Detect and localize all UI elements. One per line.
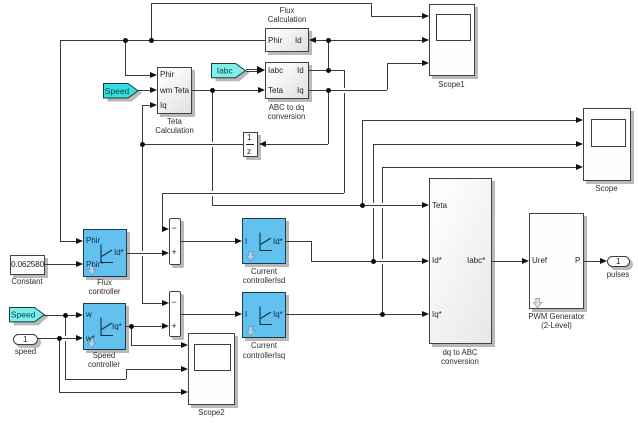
arrowhead into PWM Uref: [522, 258, 529, 264]
block Flux Calculation: [265, 28, 309, 52]
wire speed ref drop: [59, 338, 60, 392]
wire Phir drop to Scope1: [371, 3, 372, 16]
wire Id measured long drop: [344, 70, 345, 193]
junction Speed branch to Scope2: [63, 313, 68, 318]
wire Iabc double-line connector: [246, 69, 259, 70]
wire Phir into Flux controller: [60, 241, 77, 242]
wire Iq delayed into Teta Calc Iq: [142, 105, 151, 106]
block Scope2: [188, 333, 235, 406]
sum block Sum1: [169, 218, 181, 265]
arrowhead into Scope1 port2: [422, 37, 429, 43]
wire Idcmd jog down: [311, 241, 312, 261]
arrowhead into dq2ABC Iq*: [422, 311, 429, 317]
arrowhead into Teta Calculation Phir: [150, 72, 157, 78]
block Flux controller: [83, 229, 127, 277]
label Constant: [0, 277, 57, 286]
wire Iq delayed rise to Teta Calc: [142, 105, 143, 144]
label dq to ABC conversion: [420, 348, 500, 366]
label pulses: [593, 270, 638, 279]
wire speed ref to w*: [38, 338, 77, 339]
label Current controllerIsq: [224, 341, 304, 359]
tag From Speed (upper): [103, 83, 142, 103]
wire Iabc* to PWM: [492, 261, 522, 262]
arrowhead into Scope2 port3: [181, 389, 188, 395]
label Flux controller: [70, 278, 140, 296]
junction Phir branch to Scope1: [149, 38, 154, 43]
block Scope1: [429, 4, 475, 77]
wire Phir left drop: [60, 40, 61, 241]
block Teta Calculation: [157, 67, 192, 114]
svg-text:Iabc: Iabc: [217, 66, 234, 76]
junction Id measured branch up: [326, 68, 331, 73]
arrowhead into Sum1 plus: [162, 250, 169, 256]
wire Iq measured drop to delay: [328, 90, 329, 144]
wire Teta from Teta Calc: [192, 90, 259, 91]
outport pulses oval: [607, 256, 630, 267]
block Speed controller: [83, 303, 126, 350]
label Teta Calculation: [135, 117, 215, 135]
arrowhead into Scope port3: [576, 164, 583, 170]
wire Phir into Scope1: [371, 16, 423, 17]
junction Phir branch to Teta Calculation: [123, 38, 128, 43]
wire Iq measured into Scope1: [387, 63, 423, 64]
wire Constant to Flux controller: [45, 264, 77, 265]
wire Phir to Teta Calculation: [125, 75, 151, 76]
block Current controllerIsq: [242, 292, 286, 339]
svg-text:Speed: Speed: [104, 85, 129, 95]
inport speed oval: [13, 334, 38, 345]
wire Iq measured into Unit Delay: [266, 144, 329, 145]
wire Phir branch drop: [125, 40, 126, 75]
wire Id measured from ABC2dq: [309, 70, 344, 71]
wire Teta into Scope: [362, 120, 577, 121]
wire Idcmd out of Isd: [286, 241, 311, 242]
wire Speed tag to wm: [137, 90, 151, 91]
block dq to ABC conversion: [429, 178, 493, 345]
wire hop gap at 64.7,338: [65, 336, 66, 341]
wire Speed tag to w: [44, 315, 76, 316]
wire Id measured to FluxCalc and Scope1: [316, 40, 423, 41]
label Flux Calculation: [247, 6, 327, 24]
arrowhead into Sum2 minus: [162, 300, 169, 306]
wire Speed into Scope2 mid: [126, 369, 182, 370]
arrowhead into Speed controller w: [76, 312, 83, 318]
wire hop gap at 212,144: [212, 142, 213, 147]
arrowhead into Current controllerIsd: [235, 238, 242, 244]
label Scope2: [182, 408, 242, 417]
label speed: [1, 347, 51, 356]
arrowhead into Unit Delay: [259, 141, 266, 147]
wire hop gap at 381.8,205.4: [382, 203, 383, 208]
wire Speed drop: [65, 315, 66, 379]
junction speed ref branch: [57, 336, 62, 341]
arrowhead into pulses port: [600, 258, 607, 264]
block Current controllerIsd: [242, 218, 286, 264]
wire Sum1 out to CurrentIsd: [181, 241, 236, 242]
arrowhead into Teta Calculation wm: [150, 87, 157, 93]
junction Idcmd branch to Scope: [371, 259, 376, 264]
wire Teta long drop: [212, 90, 213, 205]
label ABC to dq conversion: [247, 103, 327, 121]
arrowhead into Scope1 port3: [422, 60, 429, 66]
wire Id measured into Sum1 minus: [162, 229, 164, 230]
wire Id measured rise: [328, 40, 329, 70]
wire Teta rise to Scope: [362, 120, 363, 205]
wire Sum2 out to CurrentIsq: [181, 314, 236, 315]
wire Idref to Sum1 plus: [127, 253, 163, 254]
block Constant 0.062580: [10, 255, 45, 275]
arrowhead into dq2ABC Id*: [422, 258, 429, 264]
arrowhead into Scope2 port2: [181, 366, 188, 372]
junction Iq measured branch down: [326, 88, 331, 93]
wire Id measured leftward run: [162, 193, 345, 194]
wire Speed rise to Scope2: [126, 369, 127, 379]
arrowhead into Speed controller w*: [76, 335, 83, 341]
label Speed controller: [69, 351, 139, 369]
wire Iq measured from ABC2dq: [309, 90, 387, 91]
arrowhead into Scope2 port1: [181, 342, 188, 348]
arrowhead into Current controllerIsq: [235, 311, 242, 317]
arrowhead into Flux Calculation Id: [309, 37, 316, 43]
wire Iqref into Scope2 top: [131, 345, 182, 346]
sum block Sum2: [169, 291, 181, 337]
arrowhead into dq2ABC Teta: [422, 202, 429, 208]
wire Iq measured rise to Scope1: [387, 63, 388, 90]
wire Iqcmd into Scope: [382, 167, 577, 168]
svg-text:Speed: Speed: [11, 310, 36, 320]
wire speed ref into Scope2 bottom: [59, 392, 182, 393]
label Scope1: [422, 80, 482, 89]
wire Iq delayed into Sum2 minus: [142, 303, 163, 304]
wire Id measured drop to Sum1: [162, 193, 163, 229]
wire Idcmd into Scope: [373, 144, 577, 145]
tag From Iabc: [211, 63, 250, 82]
label PWM Generator (2-Level): [512, 312, 602, 330]
arrowhead into Scope port2: [576, 141, 583, 147]
arrowhead into Scope1 port1: [422, 13, 429, 19]
wire Idcmd rise to Scope: [373, 144, 374, 261]
arrowhead into Sum2 plus: [162, 323, 169, 329]
block PWM Generator (2-Level): [529, 213, 585, 310]
arrowhead into ABC2dq Teta: [258, 87, 265, 93]
junction Id measured junction at y40: [326, 38, 331, 43]
block ABC to dq conversion: [265, 62, 309, 99]
wire Iqref drop: [131, 326, 132, 345]
wire hop gap at 142,252.8: [142, 251, 143, 256]
block Unit Delay 1/z: [243, 132, 259, 158]
junction Iq delayed junction: [140, 142, 145, 147]
junction Teta branch down: [210, 88, 215, 93]
wire Phir main horizontal: [60, 40, 266, 41]
wire Teta into dq2ABC: [212, 205, 422, 206]
junction Teta branch to Scope: [360, 203, 365, 208]
block Scope: [583, 108, 631, 181]
arrowhead into Flux controller Phir: [76, 238, 83, 244]
wire P to pulses: [584, 261, 601, 262]
wire hop gap at 372.5,205.4: [373, 203, 374, 208]
wire hop gap at 381.8,260.6: [382, 259, 383, 264]
wire Idcmd into dq2ABC: [311, 261, 422, 262]
label Scope: [577, 184, 637, 193]
wire Iq delayed drop to Sum2: [142, 144, 143, 303]
arrowhead into ABC2dq Iabc: [257, 66, 265, 74]
label Current controllerIsd: [224, 267, 304, 285]
wire Phir top run: [151, 3, 371, 4]
tag From Speed (lower): [9, 307, 48, 326]
wire Speed bottom run: [65, 379, 126, 380]
wire Iqcmd into dq2ABC: [286, 314, 422, 315]
junction Iqref branch to Scope2: [129, 324, 134, 329]
wire hop gap at 212,193: [212, 191, 213, 196]
wire Iqref to Sum2 plus: [126, 326, 163, 327]
junction Iqcmd branch to Scope: [380, 312, 385, 317]
wire Iq delayed out: [142, 144, 243, 145]
arrowhead into Sum1 minus: [162, 226, 169, 232]
arrowhead into Scope port1: [576, 117, 583, 123]
wire Iqcmd rise to Scope: [382, 167, 383, 314]
arrowhead into Teta Calculation Iq: [150, 102, 157, 108]
arrowhead into Flux controller Phir*: [76, 261, 83, 267]
wire hop gap at 344,90: [344, 88, 345, 93]
wire Phir rise to top: [151, 3, 152, 40]
